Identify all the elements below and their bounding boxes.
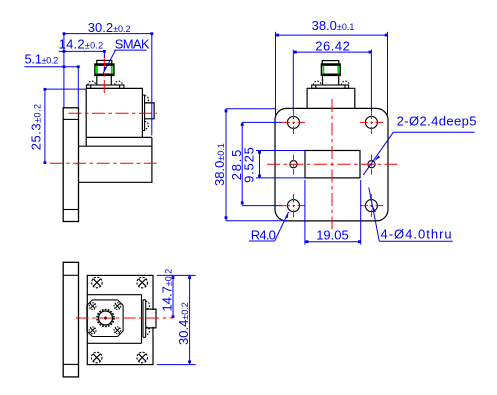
right port barrel (145, 103, 155, 119)
centerline waveguide axis (red, side) (50, 162, 157, 164)
SMA nut thick top edge (95, 64, 114, 66)
small hole left (2.4) (290, 161, 297, 168)
svg-text:SMAK: SMAK (115, 37, 150, 52)
corner hole bottom-right (365, 200, 377, 212)
SMA nut (front) (321, 64, 340, 75)
right port screw arc bottom (bottom view, dotted) (146, 327, 150, 335)
flange notch top line (63, 118, 78, 120)
screw head arc right (dotted) (115, 81, 123, 85)
dimension 38.0±0.1 top (276, 32, 388, 116)
flange notch bottom line (63, 209, 78, 211)
flange outline (rounded square) (275, 108, 388, 220)
body outline (bottom view) (87, 275, 153, 364)
corner hole top-left (288, 116, 300, 128)
svg-text:38.0±0.1: 38.0±0.1 (212, 143, 227, 186)
SMA nut thick bottom edge (95, 73, 114, 75)
SMA cap (side) (97, 60, 112, 64)
hole crosshairs (red) (282, 111, 383, 217)
neck edge top (bottom view) (87, 294, 141, 296)
corner hole bottom-left (288, 200, 300, 212)
dimension 14.2±0.2 (59, 51, 105, 57)
screw head arc right (front, dotted) (341, 81, 349, 85)
nut green edge left (front) (322, 66, 324, 74)
dimension 9.525 (vertical) (256, 151, 305, 178)
nut green edge right (front) (337, 66, 339, 74)
corner screw BL (dashed circle with X) (91, 352, 102, 363)
flange bar outline (63, 108, 78, 222)
svg-text:30.2±0.2: 30.2±0.2 (88, 20, 131, 35)
centerline right port axis (red, side) (69, 112, 158, 114)
svg-text:4-Ø4.0thru: 4-Ø4.0thru (381, 227, 453, 242)
waveguide opening rectangle (305, 151, 360, 178)
flange bar outline (bottom view) (63, 262, 78, 377)
plate screw 4 (dotted circle with X) (114, 327, 121, 334)
centerline vertical (red, front) (331, 99, 333, 229)
dimension 30.2±0.2 (64, 34, 152, 136)
svg-text:R4.0: R4.0 (251, 227, 276, 242)
connector barrel circle (99, 311, 113, 325)
screw head arc left (front, dotted) (313, 81, 321, 85)
plate screw 1 (dotted circle with X) (89, 303, 96, 310)
corner screw TL (dashed circle with X) (92, 277, 103, 288)
dimension 14.7±0.2 (172, 275, 174, 318)
dimension 19.05 (305, 180, 361, 245)
SMA flange plate octagon (bottom view) (87, 300, 123, 337)
SMA cap (front) (322, 61, 339, 64)
connector thread circle (dashed) (97, 310, 114, 327)
body behind flange (307, 88, 355, 108)
centerline horizontal waveguide axis (red, front) (267, 163, 398, 165)
SMA nut (side) (95, 64, 114, 75)
body bottom edge (86, 136, 152, 138)
plate end square right (119, 85, 121, 88)
svg-text:38.0±0.1: 38.0±0.1 (312, 18, 355, 33)
SMA neck (side) (97, 75, 112, 85)
SMA neck (front) (323, 75, 339, 85)
right port barrel (bottom view) (152, 310, 155, 327)
svg-text:26.42: 26.42 (315, 38, 350, 53)
centerline (red, bottom view) (76, 317, 173, 319)
neck edge bottom (bottom view) (87, 342, 141, 344)
plate screw 2 (dotted circle with X) (114, 303, 121, 310)
corner screw TR (dashed circle with X) (137, 277, 148, 288)
SMA nut thick bottom edge (front) (321, 73, 340, 75)
small hole vertical crosshairs (red) (294, 155, 372, 175)
corner screw BR (dashed circle with X) (137, 352, 148, 363)
plate end square left (front) (315, 85, 317, 88)
svg-text:30.4±0.2: 30.4±0.2 (176, 302, 191, 345)
svg-text:14.2±0.2: 14.2±0.2 (59, 36, 104, 51)
dimension 25.3±0.2 (45, 89, 86, 163)
plate end square left (90, 85, 92, 88)
svg-text:19.05: 19.05 (316, 228, 349, 243)
neck edge right (bottom view) (141, 295, 143, 344)
connector center pin (104, 317, 107, 320)
corner hole top-right (365, 116, 377, 128)
SMA nut thick top edge (front) (321, 64, 340, 66)
right port screw arc top (dotted) (145, 96, 149, 104)
small hole right (2.4) (368, 161, 375, 168)
screw head arc left (dotted) (88, 81, 96, 85)
SMA mount plate (side) (87, 85, 124, 88)
svg-text:9.525: 9.525 (242, 146, 257, 183)
svg-text:25.3±0.2: 25.3±0.2 (29, 103, 44, 150)
centerline SMA axis (red, side) (103, 57, 105, 97)
dimension 26.42 (293, 50, 371, 111)
right port plate (bottom view) (143, 300, 146, 338)
waveguide block (79, 137, 152, 182)
SMA mount plate (front) (312, 85, 349, 88)
svg-text:5.1±0.2: 5.1±0.2 (25, 52, 59, 67)
dimension 5.1±0.2 (25, 67, 79, 108)
body block (86, 88, 142, 146)
svg-text:2-Ø2.4deep5: 2-Ø2.4deep5 (397, 114, 477, 129)
nut green edge right (111, 66, 113, 74)
right port screw arc top (bottom view, dotted) (146, 301, 150, 309)
right port plate (142, 95, 144, 131)
nut green edge left (96, 66, 98, 74)
dimension 28.5 (vertical) (242, 122, 282, 205)
dimension 30.4±0.2 (157, 275, 196, 364)
flange notch bottom (bottom view) (63, 363, 78, 365)
dimension 38.0±0.1 left (vertical) (226, 109, 288, 221)
plate end square right (front) (344, 85, 346, 88)
flange notch top (bottom view) (63, 274, 78, 276)
right port screw arc bottom (dotted) (145, 122, 149, 130)
plate screw 3 (dotted circle with X) (89, 327, 96, 334)
